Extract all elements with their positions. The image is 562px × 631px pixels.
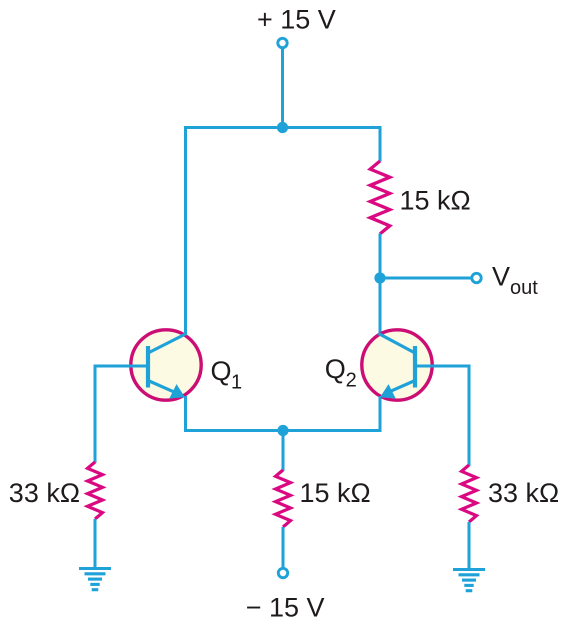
svg-text:+ 15 V: + 15 V xyxy=(257,5,336,35)
wire: Vout node to output terminal xyxy=(380,277,472,280)
terminal Vout xyxy=(472,273,481,282)
wire: Q1 emitter down to tail rail xyxy=(184,396,187,432)
svg-text:15 kΩ: 15 kΩ xyxy=(400,185,471,215)
svg-text:− 15 V: − 15 V xyxy=(246,592,325,622)
wire: R4 bottom to right ground xyxy=(468,522,471,570)
resistor R2 33 kOhm (left base bias) xyxy=(88,462,103,519)
resistor R1 15 kOhm (collector load) xyxy=(370,161,390,234)
terminal +15V xyxy=(278,38,287,47)
terminal -15V xyxy=(278,568,287,577)
junction: top rail / supply node xyxy=(277,122,288,133)
junction: Vout node xyxy=(374,272,385,283)
svg-text:Q: Q xyxy=(325,354,346,384)
resistor R4 33 kOhm (right base bias) xyxy=(462,465,477,522)
svg-text:Q: Q xyxy=(211,356,232,386)
wire: Vout node down to Q2 collector xyxy=(379,278,382,335)
svg-text:2: 2 xyxy=(346,370,357,392)
svg-text:V: V xyxy=(492,262,510,292)
svg-text:15 kΩ: 15 kΩ xyxy=(300,478,371,508)
wire: +15V terminal down to top rail xyxy=(281,48,284,128)
svg-text:33 kΩ: 33 kΩ xyxy=(9,478,80,508)
svg-text:1: 1 xyxy=(231,372,242,394)
wire: left vertical from top rail to Q1 collector xyxy=(184,126,187,335)
label Q2 xyxy=(325,354,357,392)
resistor R3 15 kOhm (tail) xyxy=(276,470,291,527)
wire: Q1 base lead to left bias node and down to R2 xyxy=(95,366,148,463)
wire: top rail xyxy=(186,126,381,129)
wire: right vertical from top rail to R1 xyxy=(379,126,382,162)
wire: tail node down to R3 xyxy=(282,431,285,472)
ground (left) xyxy=(79,569,111,590)
transistor Q1 xyxy=(95,330,201,400)
wire: Q2 emitter down to tail rail xyxy=(379,396,382,432)
wire: R3 bottom to -15V terminal xyxy=(282,527,285,568)
ground (right) xyxy=(453,570,485,591)
wire: Q2 base lead to right bias node and down to R4 xyxy=(415,366,469,466)
wire: R1 bottom to Vout node xyxy=(379,234,382,279)
wire: tail rail xyxy=(184,429,380,432)
svg-text:33 kΩ: 33 kΩ xyxy=(488,478,559,508)
label Q1 xyxy=(211,356,243,394)
label Vout xyxy=(492,262,538,300)
svg-text:out: out xyxy=(510,277,538,299)
wire: R2 bottom to left ground xyxy=(94,519,97,569)
junction: tail node xyxy=(277,425,288,436)
transistor Q2 xyxy=(362,330,470,400)
